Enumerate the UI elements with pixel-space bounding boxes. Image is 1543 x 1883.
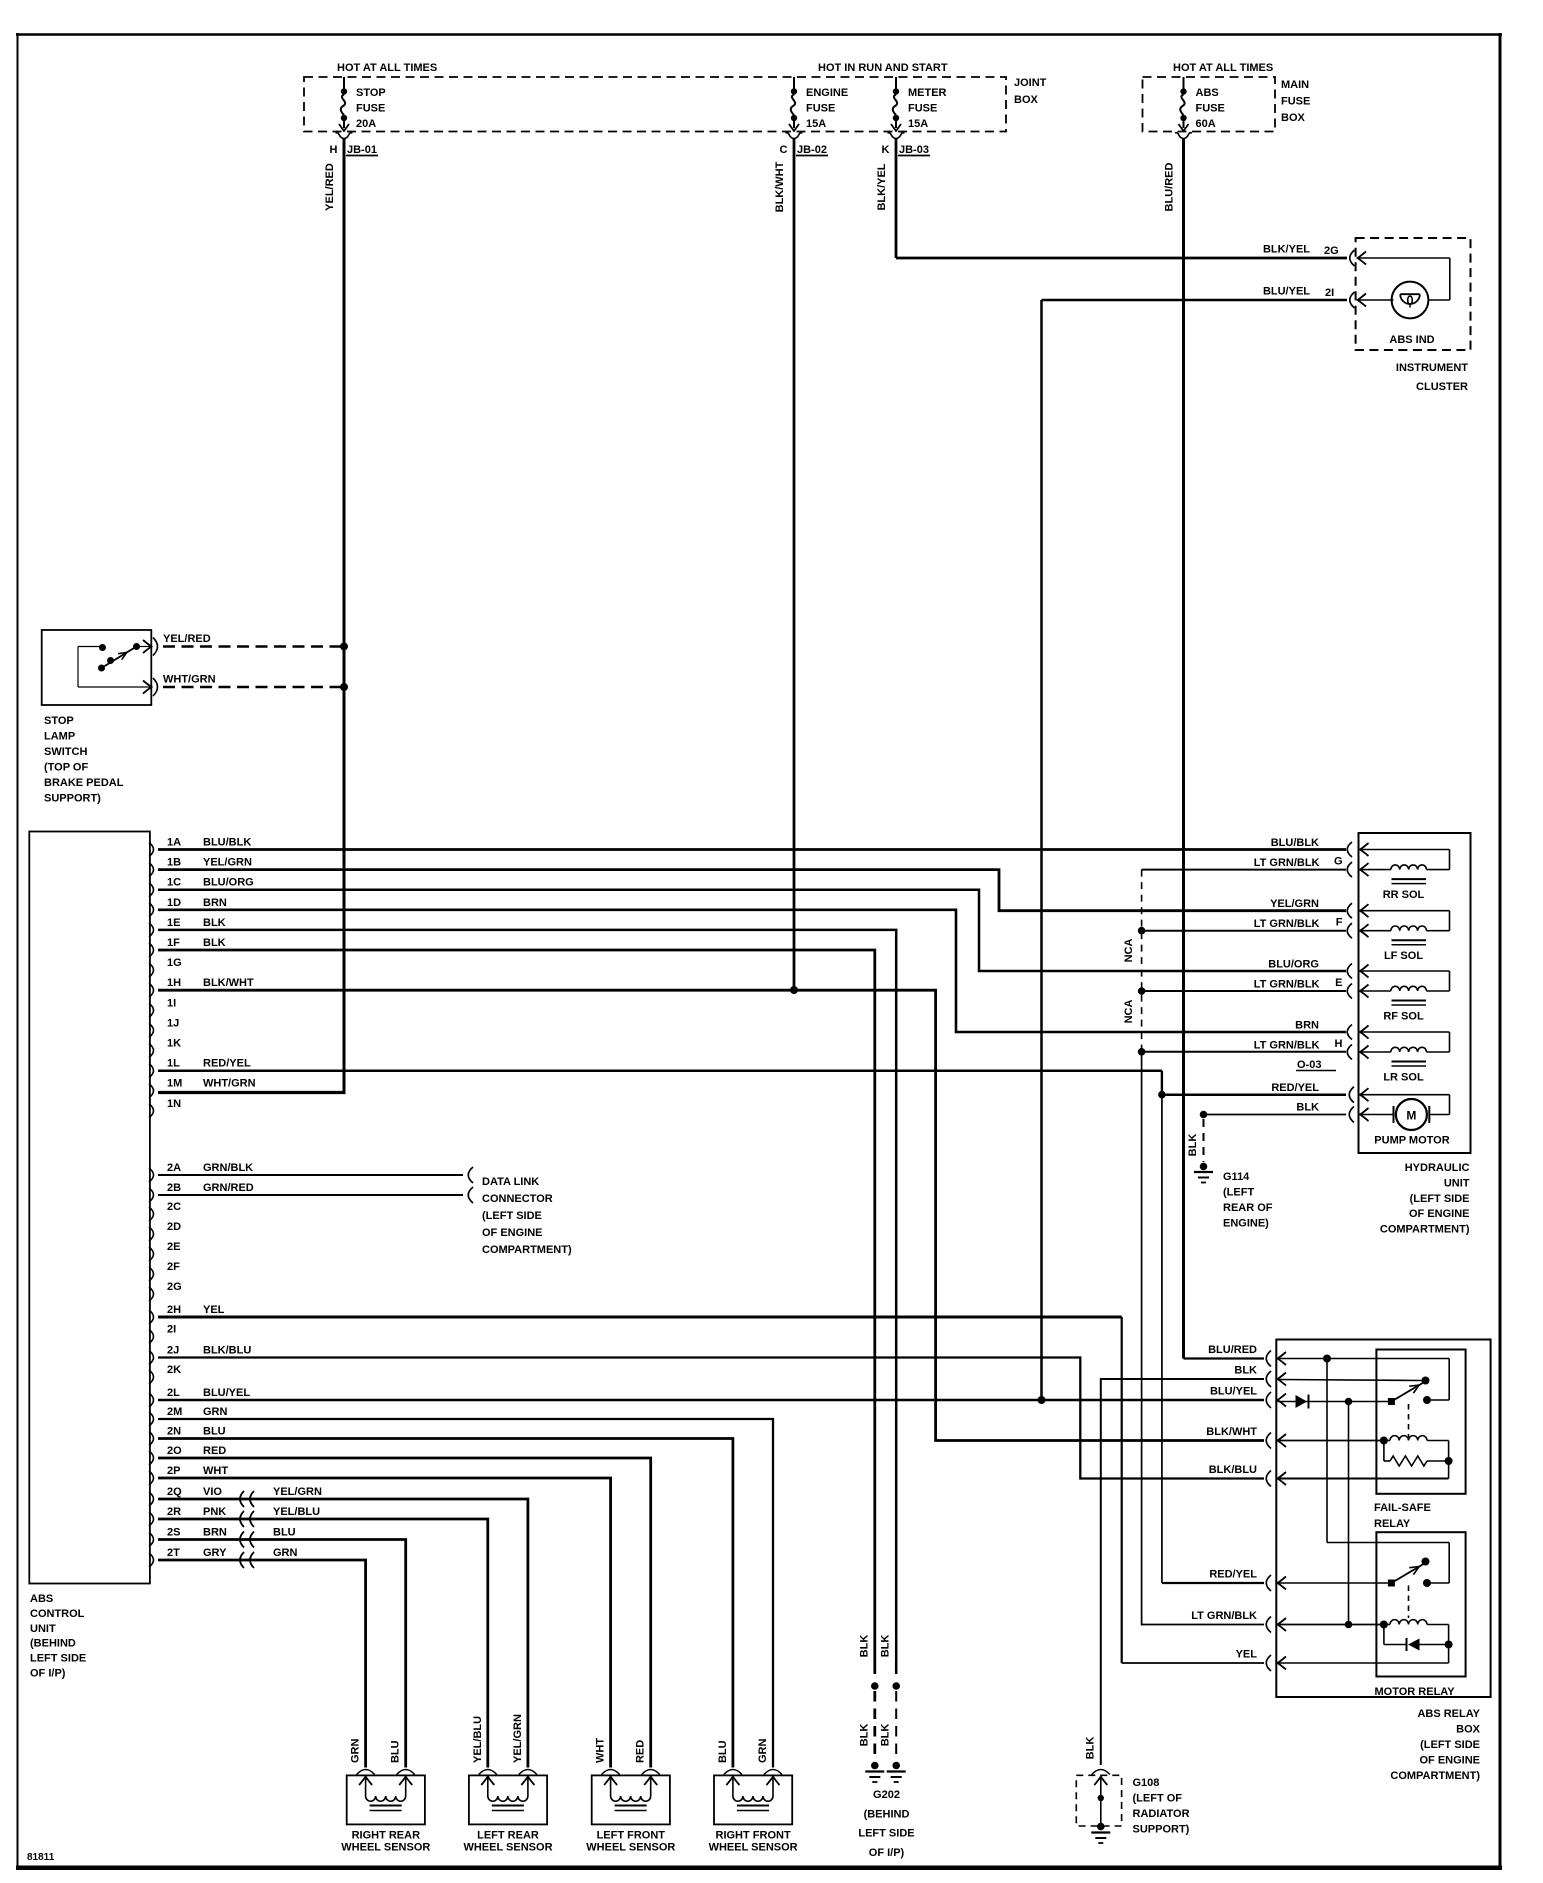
ABS control unit pin 1K connector [149,1038,181,1058]
svg-text:2G: 2G [1324,245,1339,257]
fuse ENGINE FUSE 15A [786,77,849,139]
ABS control unit pin 2E connector [149,1241,180,1261]
connector pair F at hydraulic unit [1336,903,1369,938]
svg-text:BLU/YEL: BLU/YEL [203,1387,250,1399]
connector LT GRN/BLK at ABS relay box [1191,1610,1286,1633]
wire 1A BLU/BLK to hydraulic unit RR solenoid [158,848,1346,851]
svg-text:2K: 2K [167,1364,181,1376]
svg-text:FUSE: FUSE [356,103,385,115]
svg-text:2P: 2P [167,1465,180,1477]
svg-text:2N: 2N [167,1426,181,1438]
fail-safe relay switch [1388,1377,1431,1438]
connector pair G at hydraulic unit [1334,842,1369,877]
svg-text:MAIN: MAIN [1281,79,1309,91]
svg-text:FAIL-SAFE: FAIL-SAFE [1374,1502,1431,1514]
connector BLU/YEL at ABS relay box [1210,1386,1286,1409]
label G202 (BEHIND LEFT SIDE OF I/P) [858,1789,914,1859]
label O-03 connector [1296,1059,1336,1071]
svg-text:FUSE: FUSE [1196,103,1225,115]
svg-text:2I: 2I [1325,287,1334,299]
svg-text:2B: 2B [167,1182,181,1194]
svg-text:WHEEL SENSOR: WHEEL SENSOR [586,1842,675,1854]
svg-text:1J: 1J [167,1017,179,1029]
wire LT GRN/BLK G with NCA dashed link [1142,870,1346,1052]
connector BLU/RED at ABS relay box [1208,1344,1286,1367]
ABS control unit pin 2B connector [149,1182,254,1202]
svg-text:1G: 1G [167,957,182,969]
svg-text:LR SOL: LR SOL [1383,1072,1424,1084]
svg-text:YEL/GRN: YEL/GRN [203,857,252,869]
svg-text:LEFT SIDE: LEFT SIDE [30,1653,86,1665]
wire BLK/BLU to fail-safe relay node [1278,1478,1449,1480]
svg-text:BLK: BLK [203,917,226,929]
stop lamp switch output connector WHT/GRN [143,678,158,696]
svg-text:LT GRN/BLK: LT GRN/BLK [1254,857,1320,869]
svg-text:GRN: GRN [273,1547,298,1559]
junction dot BLU/RED branch [1323,1355,1331,1363]
svg-text:NCA: NCA [1123,939,1135,963]
junction dot NCA at LT GRN/BLK E [1138,987,1146,995]
fuse ABS FUSE 60A [1175,77,1225,139]
svg-text:GRN/BLK: GRN/BLK [203,1162,253,1174]
svg-text:FUSE: FUSE [908,103,937,115]
wire BLU/YEL from cluster 2I left and down to BLU/YEL junction [1042,300,1348,1400]
RIGHT FRONT wheel sensor [709,1739,798,1854]
svg-text:(LEFT SIDE: (LEFT SIDE [482,1210,542,1222]
svg-text:UNIT: UNIT [1444,1177,1470,1189]
wire 1H BLK/WHT to fail-safe relay coil [158,990,1264,1440]
svg-text:F: F [1336,917,1343,929]
svg-text:RELAY: RELAY [1374,1518,1411,1530]
wire BLK from pump motor to ground G114 [1204,1102,1347,1115]
svg-text:BLK: BLK [858,1635,870,1658]
svg-text:BLU/ORG: BLU/ORG [1268,959,1319,971]
wire LT GRN/BLK H [1142,1051,1346,1053]
svg-text:81811: 81811 [27,1852,55,1863]
svg-text:BLU: BLU [273,1527,296,1539]
ground G114 with dashed BLK lead [1187,1111,1213,1183]
svg-text:SWITCH: SWITCH [44,746,87,758]
wire BLU/RED branch down to motor relay contact [1327,1359,1449,1584]
svg-text:LEFT REAR: LEFT REAR [477,1830,539,1842]
svg-text:YEL: YEL [203,1304,225,1316]
svg-text:BLK: BLK [203,937,226,949]
wire BLK/YEL label and pin 2G [1263,244,1339,258]
svg-text:2F: 2F [167,1261,180,1273]
svg-text:LEFT FRONT: LEFT FRONT [597,1830,666,1842]
svg-text:H: H [1335,1038,1343,1050]
ABS control unit pin 1H connector [149,977,254,997]
svg-text:BLU/BLK: BLU/BLK [203,837,251,849]
svg-text:BLK: BLK [1187,1134,1199,1157]
junction dot NCA at LT GRN/BLK H [1138,1048,1146,1056]
connector RED/YEL at pump motor [1271,1082,1368,1103]
svg-text:RED/YEL: RED/YEL [1271,1082,1319,1094]
label INSTRUMENT CLUSTER [1396,362,1468,393]
svg-text:CLUSTER: CLUSTER [1416,381,1468,393]
svg-text:RED: RED [635,1740,647,1763]
wire 2J BLK/BLU to fail-safe relay [158,1358,1264,1479]
inline connector on wire 2R [240,1511,254,1527]
ABS control unit pin 1B connector [149,857,252,877]
wire 2S BRN to RR right wheel sensor [158,1540,406,1768]
svg-text:LT GRN/BLK: LT GRN/BLK [1254,918,1320,930]
solenoid LR SOL [1360,1032,1450,1084]
svg-text:K: K [882,144,890,156]
wire LT GRN/BLK F [1142,930,1346,932]
LEFT REAR wheel sensor [463,1714,552,1853]
wire RED/YEL to motor relay switch arm [1278,1582,1392,1584]
ABS control unit pin 2H connector [149,1304,225,1324]
connector BLK at pump motor [1349,1107,1368,1123]
connector BLK/WHT at ABS relay box [1206,1426,1286,1449]
svg-text:2E: 2E [167,1241,180,1253]
svg-text:2R: 2R [167,1506,181,1518]
svg-text:BLU/YEL: BLU/YEL [1263,286,1310,298]
svg-text:BRN: BRN [1295,1020,1319,1032]
svg-text:LT GRN/BLK: LT GRN/BLK [1254,979,1320,991]
ground G202 lead BLK at x=874.8 [858,1635,884,1782]
svg-text:RED/YEL: RED/YEL [203,1058,251,1070]
stop lamp switch internal contacts [78,643,150,687]
ABS control unit pin 1N connector [149,1098,181,1118]
svg-text:BLK/WHT: BLK/WHT [774,161,786,212]
svg-text:ENGINE): ENGINE) [1223,1218,1269,1230]
ABS control unit pin 2Q connector [149,1486,322,1506]
svg-text:20A: 20A [356,118,376,130]
fail-safe relay resistor [1384,1441,1453,1479]
svg-text:BLU: BLU [390,1740,402,1763]
wire BLK/WHT from ENGINE fuse down to 1H junction [774,139,794,991]
ground G202 lead BLK at x=896.2 [880,1635,906,1782]
svg-text:YEL/RED: YEL/RED [324,163,336,211]
wire BLU/YEL branch down to LT GRN/BLK junction [1348,1402,1350,1625]
svg-text:WHEEL SENSOR: WHEEL SENSOR [463,1842,552,1854]
ABS control unit pin 1J connector [149,1017,179,1037]
svg-text:GRN: GRN [757,1739,769,1764]
svg-text:RF SOL: RF SOL [1383,1011,1424,1023]
wire WHT/GRN dashed from stop lamp switch [163,674,341,688]
svg-text:BLK/BLU: BLK/BLU [203,1345,251,1357]
svg-text:1F: 1F [167,937,180,949]
svg-text:BLK/YEL: BLK/YEL [1263,244,1310,256]
svg-text:SUPPORT): SUPPORT) [44,793,101,805]
svg-text:WHEEL SENSOR: WHEEL SENSOR [341,1842,430,1854]
svg-text:LEFT SIDE: LEFT SIDE [858,1828,914,1840]
ABS control unit pin 2A connector [149,1162,253,1182]
ABS control unit pin 1G connector [149,957,182,977]
svg-text:(LEFT SIDE: (LEFT SIDE [1410,1193,1470,1205]
ABS control unit pin 1D connector [149,897,227,917]
svg-text:RED: RED [203,1445,226,1457]
svg-text:2L: 2L [167,1387,180,1399]
fail-safe relay box [1376,1350,1465,1494]
svg-text:1L: 1L [167,1058,180,1070]
svg-text:BLK/YEL: BLK/YEL [876,163,888,210]
ground G108 with connector [1076,1737,1121,1843]
wire 1B YEL/GRN with jog to hydraulic unit LF solenoid [158,870,1346,911]
svg-text:G202: G202 [873,1789,900,1801]
svg-text:YEL/GRN: YEL/GRN [273,1486,322,1498]
wire 1F BLK down to ground G202 [158,950,875,1674]
svg-text:H: H [330,144,338,156]
svg-text:1H: 1H [167,977,181,989]
connector pair E at hydraulic unit [1335,964,1368,999]
ABS control unit pin 2M connector [149,1406,228,1426]
svg-text:WHEEL SENSOR: WHEEL SENSOR [709,1842,798,1854]
ABS control unit pin 1C connector [149,877,254,897]
svg-text:METER: METER [908,87,947,99]
wire LT GRN/BLK down to motor relay coil [1142,1052,1264,1625]
svg-text:YEL/GRN: YEL/GRN [1270,898,1319,910]
svg-text:ABS: ABS [30,1593,53,1605]
svg-text:BLK/WHT: BLK/WHT [203,977,254,989]
svg-text:VIO: VIO [203,1486,222,1498]
wire 2L BLU/YEL to fail-safe relay [158,1399,1264,1402]
svg-text:PNK: PNK [203,1506,226,1518]
junction dot BLU/YEL from instrument cluster [1038,1396,1046,1404]
svg-text:OF ENGINE: OF ENGINE [1409,1208,1470,1220]
svg-text:BLU/RED: BLU/RED [1164,163,1176,212]
svg-text:15A: 15A [908,118,928,130]
svg-text:ABS: ABS [1196,87,1219,99]
ABS control unit pin 2F connector [149,1261,180,1281]
svg-text:CONTROL: CONTROL [30,1608,85,1620]
svg-text:2S: 2S [167,1527,180,1539]
junction dot RED/YEL at pump motor branch [1158,1091,1166,1099]
fail-safe relay coil [1278,1436,1449,1461]
solenoid RF SOL [1360,971,1450,1023]
instrument cluster box (dashed) [1356,238,1471,350]
svg-text:BLU/BLK: BLU/BLK [1271,837,1319,849]
svg-text:HOT AT ALL TIMES: HOT AT ALL TIMES [1173,62,1273,74]
connector JB-01 pin H [330,144,378,156]
svg-text:GRN/RED: GRN/RED [203,1182,254,1194]
junction dot YEL/RED / stop lamp switch [340,643,348,651]
label HYDRAULIC UNIT (LEFT SIDE OF ENGINE COMPARTMENT) [1380,1162,1470,1236]
ABS control unit pin 2C connector [149,1201,181,1221]
svg-text:1I: 1I [167,997,176,1009]
ABS control unit pin 1M connector [149,1078,256,1098]
svg-text:GRN: GRN [203,1406,228,1418]
ABS control unit pin 2J connector [149,1345,251,1365]
svg-text:JB-03: JB-03 [899,144,929,156]
svg-text:BLU: BLU [717,1740,729,1763]
motor relay coil [1278,1620,1449,1645]
joint box (dashed) [304,77,1006,132]
ABS control unit pin 1I connector [149,997,176,1017]
svg-text:2G: 2G [167,1281,182,1293]
ABS control unit pin 2R connector [149,1506,320,1526]
svg-text:(BEHIND: (BEHIND [30,1638,76,1650]
connector 2G at instrument cluster [1350,250,1366,266]
inline connector on wire 2S [240,1532,254,1548]
svg-text:YEL/BLU: YEL/BLU [273,1506,320,1518]
svg-text:(LEFT OF: (LEFT OF [1133,1793,1183,1805]
fuse METER FUSE 15A [888,77,947,139]
svg-text:M: M [1406,1109,1416,1123]
svg-text:INSTRUMENT: INSTRUMENT [1396,362,1468,374]
svg-text:WHT/GRN: WHT/GRN [203,1078,256,1090]
svg-text:JB-02: JB-02 [797,144,827,156]
ABS relay box [1276,1340,1490,1698]
motor relay switch [1388,1558,1431,1619]
solenoid LF SOL [1360,911,1450,963]
connector JB-02 pin C [780,144,828,156]
wire 2R PNK to LR left wheel sensor [158,1519,488,1768]
wire YEL/RED dashed from stop lamp switch [163,633,341,647]
svg-text:BLK/BLU: BLK/BLU [1209,1464,1257,1476]
connector BLK at ABS relay box [1234,1365,1286,1388]
ABS control unit pin 2P connector [149,1465,228,1485]
svg-text:2C: 2C [167,1201,181,1213]
svg-text:STOP: STOP [44,715,74,727]
label BLU/YEL and pin 2I [1263,286,1334,300]
svg-text:1K: 1K [167,1038,181,1050]
svg-text:2Q: 2Q [167,1486,182,1498]
svg-text:E: E [1335,977,1342,989]
svg-text:HYDRAULIC: HYDRAULIC [1405,1162,1470,1174]
svg-text:(LEFT: (LEFT [1223,1187,1254,1199]
junction dot at LT GRN/BLK motor relay coil [1345,1621,1353,1629]
wire BLK from ABS relay box to ground G108 [1101,1379,1264,1765]
ABS control unit pin 2L connector [149,1387,250,1407]
ABS control unit pin 1A connector [149,837,251,857]
svg-text:BLU: BLU [203,1426,226,1438]
svg-text:GRN: GRN [350,1739,362,1764]
svg-text:BOX: BOX [1281,112,1306,124]
svg-text:COMPARTMENT): COMPARTMENT) [1390,1770,1480,1782]
junction dot BLU/YEL branch to motor relay coil [1345,1398,1353,1406]
solenoid RR SOL [1360,850,1450,902]
stop lamp switch box [42,630,152,705]
svg-text:G114: G114 [1223,1171,1250,1183]
ABS control unit pin 2G connector [149,1281,182,1301]
svg-text:(LEFT SIDE: (LEFT SIDE [1420,1739,1480,1751]
svg-text:BRN: BRN [203,1527,227,1539]
svg-text:ABS IND: ABS IND [1389,334,1434,346]
inline connector on wire 2Q [240,1491,254,1507]
junction dot BLK/WHT at 1H wire [790,986,798,994]
wire 1C BLU/ORG with jog to hydraulic unit RF solenoid [158,890,1346,971]
svg-text:RIGHT REAR: RIGHT REAR [352,1830,421,1842]
svg-text:LT GRN/BLK: LT GRN/BLK [1191,1610,1257,1622]
svg-text:WHT: WHT [595,1738,607,1763]
svg-text:1D: 1D [167,897,181,909]
svg-text:BLK: BLK [880,1724,892,1747]
connector JB-03 pin K [882,144,930,156]
connector 2I at instrument cluster [1350,292,1366,308]
wire YEL into motor relay [1278,1645,1449,1664]
svg-text:YEL/RED: YEL/RED [163,633,211,645]
svg-text:SUPPORT): SUPPORT) [1133,1824,1190,1836]
wire 2O RED to LF right wheel sensor [158,1458,651,1768]
ABS control unit pin 2N connector [149,1426,226,1446]
LEFT FRONT wheel sensor [586,1738,675,1854]
wire 1E BLK down to ground G202 [158,930,896,1674]
svg-text:OF ENGINE: OF ENGINE [482,1227,543,1239]
svg-text:OF ENGINE: OF ENGINE [1419,1755,1480,1767]
svg-text:BLK: BLK [1234,1365,1257,1377]
label ABS RELAY BOX (LEFT SIDE OF ENGINE COMPARTMENT) [1390,1708,1480,1782]
wire 2H YEL to motor relay YEL input [158,1317,1264,1663]
wire BLK/YEL from METER fuse down and right to instrument cluster 2G [876,139,1347,259]
svg-text:2A: 2A [167,1162,181,1174]
pump motor M [1360,1095,1450,1147]
wire YEL/RED from STOP fuse down to stop lamp switch junctions and pin 1M [324,139,344,1093]
svg-text:60A: 60A [1196,118,1216,130]
wire 1M WHT/GRN horizontal [158,1091,346,1094]
inline connector on wire 2T [240,1552,254,1568]
svg-text:WHT: WHT [203,1465,228,1477]
wire BLK to fail-safe switch arm [1278,1380,1423,1381]
ABS control unit pin 1E connector [149,917,226,937]
svg-text:2I: 2I [167,1324,176,1336]
connector pair H at hydraulic unit [1335,1025,1369,1060]
svg-text:STOP: STOP [356,87,386,99]
svg-text:HOT IN RUN AND START: HOT IN RUN AND START [818,62,948,74]
svg-text:LT GRN/BLK: LT GRN/BLK [1254,1040,1320,1052]
svg-text:GRY: GRY [203,1547,227,1559]
svg-text:COMPARTMENT): COMPARTMENT) [1380,1224,1470,1236]
svg-text:REAR OF: REAR OF [1223,1202,1273,1214]
svg-text:MOTOR RELAY: MOTOR RELAY [1375,1686,1456,1698]
ABS control unit pin 2T connector [149,1547,298,1567]
svg-text:ABS RELAY: ABS RELAY [1417,1708,1480,1720]
svg-text:BLK: BLK [858,1724,870,1747]
motor relay box [1376,1532,1465,1676]
svg-text:BOX: BOX [1014,94,1039,106]
svg-text:BRAKE PEDAL: BRAKE PEDAL [44,777,124,789]
svg-text:DATA LINK: DATA LINK [482,1176,539,1188]
ABS control unit pin 1F connector [149,937,226,957]
svg-text:YEL/BLU: YEL/BLU [472,1716,484,1763]
wire 2A GRN/BLK to data link connector [158,1174,463,1176]
svg-text:2H: 2H [167,1304,181,1316]
svg-text:(BEHIND: (BEHIND [864,1808,910,1820]
wire BLU/YEL into fail-safe relay [1278,1401,1392,1403]
ABS control unit pin 2O connector [149,1445,226,1465]
svg-text:FUSE: FUSE [806,103,835,115]
svg-text:2T: 2T [167,1547,180,1559]
wire 2P WHT to LF left wheel sensor [158,1478,611,1768]
svg-text:RR SOL: RR SOL [1383,889,1425,901]
ABS control unit pin 2S connector [149,1527,296,1547]
svg-text:O-03: O-03 [1297,1059,1321,1071]
stop lamp switch output connector YEL/RED [143,638,158,656]
svg-text:2D: 2D [167,1221,181,1233]
svg-text:1E: 1E [167,917,180,929]
svg-text:BRN: BRN [203,897,227,909]
connector RED/YEL at ABS relay box [1209,1569,1286,1592]
motor relay diode [1384,1625,1453,1652]
RIGHT REAR wheel sensor [341,1739,430,1854]
svg-text:BLU/YEL: BLU/YEL [1210,1386,1257,1398]
svg-text:HOT AT ALL TIMES: HOT AT ALL TIMES [337,62,437,74]
svg-text:BLU/RED: BLU/RED [1208,1344,1257,1356]
svg-text:15A: 15A [806,118,826,130]
junction dot NCA at LT GRN/BLK F [1138,927,1146,935]
main fuse box (dashed) [1143,77,1276,132]
svg-text:JB-01: JB-01 [347,144,377,156]
wire 1D BRN with jog to hydraulic unit LR solenoid [158,910,1346,1032]
wire 1L RED/YEL to pump motor and motor relay [158,1071,1264,1583]
svg-text:1C: 1C [167,877,181,889]
ABS control unit pin 2K connector [149,1364,181,1384]
svg-text:2O: 2O [167,1445,182,1457]
svg-text:G108: G108 [1133,1777,1160,1789]
svg-text:LAMP: LAMP [44,731,75,743]
